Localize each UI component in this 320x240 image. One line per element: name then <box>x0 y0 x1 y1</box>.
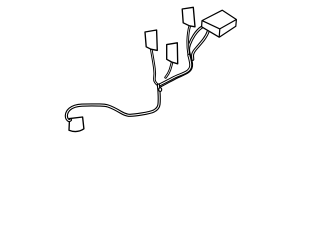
wire W3 (top connector stalk) <box>188 26 190 55</box>
wire W1 (left connector stalk) <box>151 49 158 85</box>
connector C1 (top) <box>182 7 195 27</box>
wire trunk (junction to bottom-left connector) <box>66 85 159 120</box>
relay box (isometric) <box>202 10 237 37</box>
wire W5 (box wire 2, outer) <box>193 31 209 60</box>
box silhouette <box>202 10 237 37</box>
connector C2 (left) <box>145 30 157 50</box>
connector C4 (bottom-left) <box>69 117 84 132</box>
tie/clip nub at junction <box>159 88 162 92</box>
wire W2 (middle connector stalk) <box>166 63 172 78</box>
wire W4 (box wire 1) <box>160 27 202 86</box>
wiring harness line drawing <box>0 0 300 142</box>
box inner edges <box>202 20 236 38</box>
connector C3 (middle) <box>167 43 178 64</box>
wire W3b (bundle from stalks to junction) <box>159 55 190 85</box>
